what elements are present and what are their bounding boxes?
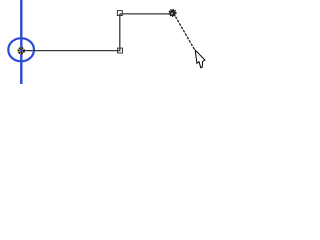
node marker: black serrated wire-end at top right	[169, 9, 176, 16]
handle: corner vertex square top	[117, 11, 122, 16]
node A: blue highlight ellipse	[8, 38, 34, 61]
wire: horizontal segment bottom	[23, 50, 120, 52]
wire: vertical segment	[119, 14, 121, 51]
wire: vertical blue bus line	[20, 0, 22, 84]
node marker: yellow/black serrated junction on blue line	[19, 48, 24, 53]
background	[0, 0, 222, 84]
handle: corner vertex square bottom	[118, 48, 123, 53]
wire: dashed rubber-band segment to cursor	[174, 13, 195, 50]
cursor: mouse arrow pointer	[195, 50, 205, 68]
wire: horizontal segment top	[120, 13, 172, 15]
